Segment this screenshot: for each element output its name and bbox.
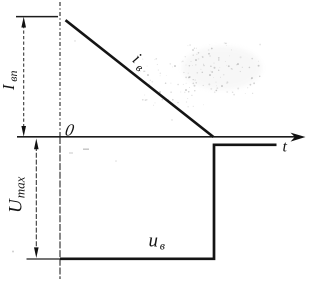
voltage waveform u_v <box>60 145 277 259</box>
svg-text:Umax: Umax <box>5 176 27 213</box>
arrowhead up (top of I_vp dim) <box>21 17 26 28</box>
falling current line i_v <box>66 20 214 137</box>
thin tick at bottom left (-Umax level) <box>27 258 61 260</box>
arrowhead up (top of U_max dim) <box>34 139 39 150</box>
label U_max rotated <box>5 176 27 213</box>
t-axis (abscissa) <box>17 136 297 138</box>
label I_vp rotated <box>0 70 20 91</box>
scan smudge noise patch <box>12 40 262 252</box>
tick at I level (top) <box>16 16 58 18</box>
arrowhead down (bottom of I_vp dim) <box>21 126 26 137</box>
dimension line U_max (left, below axis) <box>35 146 37 251</box>
svg-text:Iвп: Iвп <box>0 70 20 91</box>
vertical dash-dot axis (ordinate) <box>59 2 61 136</box>
label i_v (rotated along line) <box>127 49 151 74</box>
svg-text:t: t <box>283 139 288 156</box>
svg-text:uв: uв <box>149 230 166 252</box>
arrowhead down (bottom of U_max dim) <box>34 247 39 258</box>
t-axis arrowhead <box>291 133 306 142</box>
dimension line I_vp (left, above axis) <box>23 25 25 129</box>
vertical axis lower part <box>59 137 61 279</box>
